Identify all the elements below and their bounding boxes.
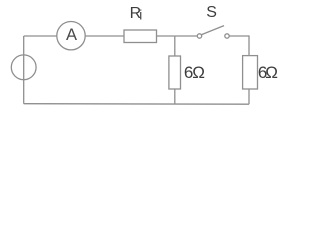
wire: top-left horizontal, source to ammeter <box>24 35 57 37</box>
wire: source bottom vertical <box>23 80 25 104</box>
resistor Ri <box>124 30 157 43</box>
switch S: blade (open) <box>202 26 224 35</box>
svg-text:S: S <box>206 4 217 21</box>
svg-text:Ω: Ω <box>265 63 278 82</box>
wire: source top vertical (through source symbol) <box>23 36 25 55</box>
resistor R3 (6 ohm) <box>243 56 258 89</box>
wire: below R2 to bottom wire <box>174 89 176 104</box>
ammeter A1 <box>57 22 85 50</box>
wire: through voltage source <box>23 55 25 80</box>
wire: bottom horizontal return <box>24 103 249 106</box>
wire: below R3 to bottom wire <box>248 89 250 104</box>
svg-text:A: A <box>66 26 77 44</box>
wire: right branch vertical down to R3 <box>248 35 250 55</box>
resistor R2 (6 ohm) <box>169 56 181 89</box>
voltage source U1 <box>11 55 36 80</box>
switch S: left contact <box>197 34 201 38</box>
svg-text:Ω: Ω <box>192 63 205 82</box>
wire: branch vertical down to R2 <box>174 36 176 56</box>
wire: junction to switch left contact <box>175 35 198 37</box>
wire: Ri to junction node <box>157 35 175 37</box>
wire: ammeter to Ri <box>85 35 124 37</box>
wire: switch to right corner <box>229 35 249 37</box>
switch S: right contact <box>225 34 229 38</box>
svg-text:i: i <box>139 8 142 23</box>
